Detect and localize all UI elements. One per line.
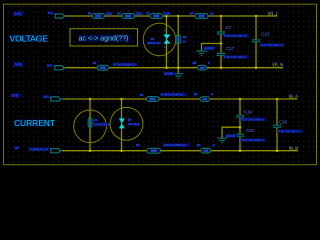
wire R5 branch [177,16,179,68]
varistor circle [74,110,107,143]
svg-text:AGND: AGND [226,134,236,138]
svg-text:[1,0]: [1,0] [15,63,22,67]
svg-text:220k: 220k [136,12,143,16]
resistor R1 [92,14,105,19]
svg-text:B2: B2 [140,93,144,97]
svg-text:A: A [164,45,166,49]
svg-text:C7: C7 [226,25,232,30]
fuse B1 [97,65,110,70]
svg-text:[1,0]: [1,0] [12,94,19,98]
wire AGND stub voltage [202,44,222,51]
wire C7 C17 branch [220,16,222,68]
ground AGND row2 [173,74,183,79]
svg-text:AC+: AC+ [48,11,54,15]
svg-text:AC-: AC- [47,64,52,68]
svg-text:ACMG1606BA(1): ACMG1606BA(1) [113,63,136,67]
svg-text:A: A [120,114,122,118]
svg-text:CURRENT_IN: CURRENT_IN [29,147,48,151]
svg-text:47uF 50V 20% X: 47uF 50V 20% X [260,43,283,47]
svg-text:47uF 50V 20% X: 47uF 50V 20% X [241,138,264,142]
wire AGND stub row2 [177,68,179,74]
label AC- [47,64,53,67]
label D5 [150,38,154,41]
ground AGND voltage mid [197,51,207,56]
value label inside R4 [198,15,204,18]
svg-text:VOLTAGE: VOLTAGE [10,34,49,44]
svg-text:A: A [120,131,122,135]
value label inside B4 [151,149,157,152]
resistor R4 [195,14,208,19]
svg-text:C17: C17 [226,46,234,51]
wire TVS branch current [121,99,123,151]
svg-text:AC+: AC+ [43,95,49,99]
label CURRENT_IN [29,147,49,150]
svg-text:C25: C25 [279,119,287,124]
svg-text:R7: R7 [197,143,201,147]
svg-text:A: A [164,28,166,32]
svg-text:C10: C10 [261,32,269,37]
svg-text:[1,0]: [1,0] [14,12,21,16]
svg-text:SMCJ8.0A: SMCJ8.0A [128,123,140,126]
TVS circle D6 [110,107,143,140]
svg-text:ACMG1606BA(2): ACMG1606BA(2) [163,143,186,147]
title CURRENT [14,119,52,126]
svg-text:220k: 220k [106,12,113,16]
wire C25 branch [276,99,278,151]
capacitor C17 [217,53,226,55]
value label inside R6 [202,98,207,100]
svg-text:D5: D5 [151,37,155,41]
svg-text:VR_N: VR_N [272,63,283,68]
svg-text:C19: C19 [244,110,252,115]
svg-text:220k: 220k [164,12,171,16]
svg-text:R4: R4 [190,12,194,16]
wire AC+ top row [65,15,277,17]
svg-text:IN_B: IN_B [289,146,299,151]
port AC+ [55,14,65,18]
label [2] bottom [14,146,20,149]
TVS circle D5 [143,23,176,56]
capacitor C10 [252,40,260,42]
port AC+ current [51,97,61,101]
wire AC- row [65,67,284,69]
value label inside B2 [149,98,155,101]
value label inside B1 [100,66,106,69]
svg-text:B1: B1 [93,61,97,65]
wire varistor branch [89,99,91,151]
svg-text:AGND: AGND [164,72,174,76]
svg-text:R5: R5 [183,35,187,39]
svg-text:R2: R2 [117,12,121,16]
junction dots current [89,98,279,152]
resistor R2 [122,14,135,19]
resistor R7 [201,148,211,153]
svg-text:ACMG1606BA(2): ACMG1606BA(2) [161,93,184,97]
svg-text:R8: R8 [193,61,197,65]
port CURRENT_IN [51,149,61,153]
value label inside R7 [203,150,208,152]
resistor R8 [198,65,207,70]
value label inside R3 [153,15,159,18]
TVS diode D6 [119,118,125,128]
capacitor C19 [236,115,245,117]
svg-text:47uF 50V 20% X: 47uF 50V 20% X [224,55,247,59]
svg-text:[2]: [2] [15,146,19,150]
ground AGND current [217,138,227,143]
svg-text:R3: R3 [146,12,150,16]
svg-text:ac <-> agnd(??): ac <-> agnd(??) [79,36,129,43]
value label inside R1 [95,15,101,18]
svg-text:R6: R6 [194,92,198,96]
junction dots voltage [165,15,257,69]
wire AGND stub current [222,127,240,138]
svg-text:B4: B4 [136,143,140,147]
capacitor C20 [236,134,245,136]
wire TVS branch [165,16,167,68]
wire current top row [63,98,297,100]
label AC+ [47,11,53,14]
varistor F1 [88,118,92,128]
choke B4 bottom [147,148,161,153]
note box ac agnd [70,29,138,46]
svg-text:IN_A: IN_A [289,94,299,99]
svg-text:CURRENT: CURRENT [14,118,55,128]
port AC- [55,66,65,70]
svg-text:VR_1: VR_1 [268,11,279,16]
resistor R3 [150,14,163,19]
capacitor C25 [273,125,282,127]
label [1,0] voltage top [14,12,24,16]
label [1,0] current top [11,93,21,97]
wire C10 branch [255,16,257,68]
svg-text:CG0603MLA: CG0603MLA [94,122,110,126]
svg-text:R1: R1 [88,12,92,16]
svg-text:47uF 50V 20% X: 47uF 50V 20% X [277,129,300,133]
resistor R6 [200,97,210,102]
wire current bottom row [63,150,299,152]
title VOLTAGE [9,35,48,42]
label [1,0] row2 [14,62,24,66]
svg-text:C20: C20 [246,128,254,133]
svg-text:SMCJ8.0CA: SMCJ8.0CA [147,42,161,45]
resistor R5 vertical [176,35,180,45]
wire C19 C20 branch [239,99,241,151]
svg-text:AGND: AGND [205,46,215,50]
TVS diode D5 [163,34,170,43]
svg-text:47uF 50V 20% X: 47uF 50V 20% X [241,118,264,122]
choke B2 top [146,97,158,102]
capacitor C7 [217,32,226,34]
value label inside R2 [125,15,131,18]
svg-text:D6: D6 [128,118,132,122]
svg-text:47uF 50V 20% X: 47uF 50V 20% X [224,34,247,38]
